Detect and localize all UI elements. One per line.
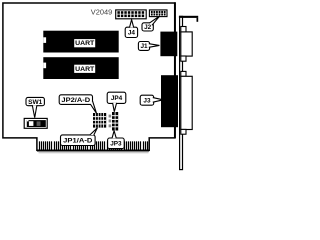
svg-text:J3: J3 [143, 97, 151, 104]
svg-text:JP1/A-D: JP1/A-D [63, 138, 93, 144]
svg-text:JP3: JP3 [110, 141, 122, 148]
svg-text:JP4: JP4 [111, 95, 123, 102]
svg-text:J1: J1 [140, 43, 148, 50]
svg-text:V2049: V2049 [91, 10, 113, 17]
svg-text:J4: J4 [128, 30, 136, 37]
svg-text:UART: UART [75, 66, 95, 73]
svg-text:JP2/A-D: JP2/A-D [61, 98, 91, 104]
svg-text:UART: UART [75, 40, 95, 47]
svg-text:SW1: SW1 [28, 99, 43, 106]
svg-text:J2: J2 [144, 24, 152, 31]
